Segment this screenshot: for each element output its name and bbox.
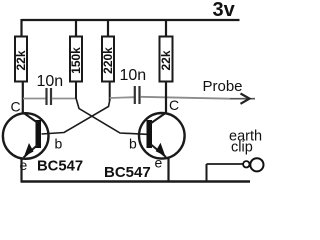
wire: ground rail up to earth clip lead: [206, 164, 208, 182]
earth clip symbol: [243, 158, 263, 171]
capacitor C2 10n: [135, 86, 140, 104]
wire: R3/C2 node to C2 left plate: [110, 96, 134, 99]
wire: C1 right plate to R2 bottom node: [52, 98, 76, 100]
wire: rail to R3 top: [107, 19, 109, 37]
label: 3v supply: [213, 0, 236, 21]
resistor R4 22k: [159, 37, 173, 82]
svg-text:220k: 220k: [101, 47, 115, 74]
wire: R1 bottom to Q1 collector: [22, 82, 24, 114]
svg-text:10n: 10n: [37, 73, 64, 90]
wire: +3v top supply rail: [22, 19, 240, 21]
svg-text:clip: clip: [231, 140, 253, 156]
wire: Q2 emitter to ground rail: [167, 157, 169, 182]
svg-text:BC547: BC547: [37, 159, 83, 175]
svg-text:10n: 10n: [120, 67, 147, 84]
label: Q1 part number BC547: [37, 159, 83, 175]
svg-text:b: b: [55, 136, 63, 152]
wire: Q1 emitter to ground rail: [20, 158, 22, 182]
resistor R2 150k: [69, 37, 83, 82]
label: Probe: [203, 78, 243, 95]
wire: R4 bottom to Q2 collector: [165, 82, 167, 114]
wire: cross-coupling R3/C2 node to Q1 base: [42, 101, 110, 135]
wire: C2 right plate to Q2 collector node and probe line: [140, 97, 230, 99]
svg-text:BC547: BC547: [104, 164, 151, 181]
transistor Q1 BC547 (npn): [3, 113, 49, 159]
wire: R2 bottom to node: [75, 82, 77, 99]
svg-text:Probe: Probe: [203, 78, 243, 95]
svg-text:3v: 3v: [213, 0, 236, 21]
resistor R3 220k: [101, 37, 115, 82]
pin label: Q1 emitter e: [20, 157, 28, 173]
pin label: Q2 collector C: [169, 97, 179, 113]
wire: cross-coupling R2/C1 node to Q2 base: [76, 98, 147, 134]
svg-text:C: C: [169, 97, 179, 113]
wire: R3 bottom to node: [109, 82, 111, 101]
probe output arrow: [230, 94, 255, 104]
resistor R1 22k: [14, 37, 28, 82]
wire: earth clip lead: [207, 163, 244, 165]
transistor Q2 BC547 (npn, mirrored): [139, 113, 185, 159]
wire: Q1 collector node to C1 left plate: [23, 98, 46, 100]
svg-text:22k: 22k: [159, 50, 173, 70]
wire: ground rail (0v): [21, 180, 251, 182]
pin label: Q1 collector C: [11, 98, 21, 114]
pin label: Q2 emitter e: [155, 155, 163, 171]
pin label: Q2 base b: [129, 136, 137, 152]
label: earth clip: [229, 129, 262, 156]
svg-text:22k: 22k: [14, 50, 28, 70]
wire: rail to R4 top: [165, 19, 167, 37]
capacitor C1 10n: [47, 88, 52, 105]
label: Q2 part number BC547: [104, 164, 151, 181]
svg-text:C: C: [11, 98, 21, 114]
label: C1 value 10n: [37, 73, 64, 90]
svg-text:e: e: [155, 155, 163, 171]
label: C2 value 10n: [120, 67, 147, 84]
wire: rail to R2 top: [75, 19, 77, 37]
svg-text:b: b: [129, 136, 137, 152]
wire: rail to R1 top: [20, 19, 22, 37]
pin label: Q1 base b: [55, 136, 63, 152]
svg-text:150k: 150k: [69, 47, 83, 74]
